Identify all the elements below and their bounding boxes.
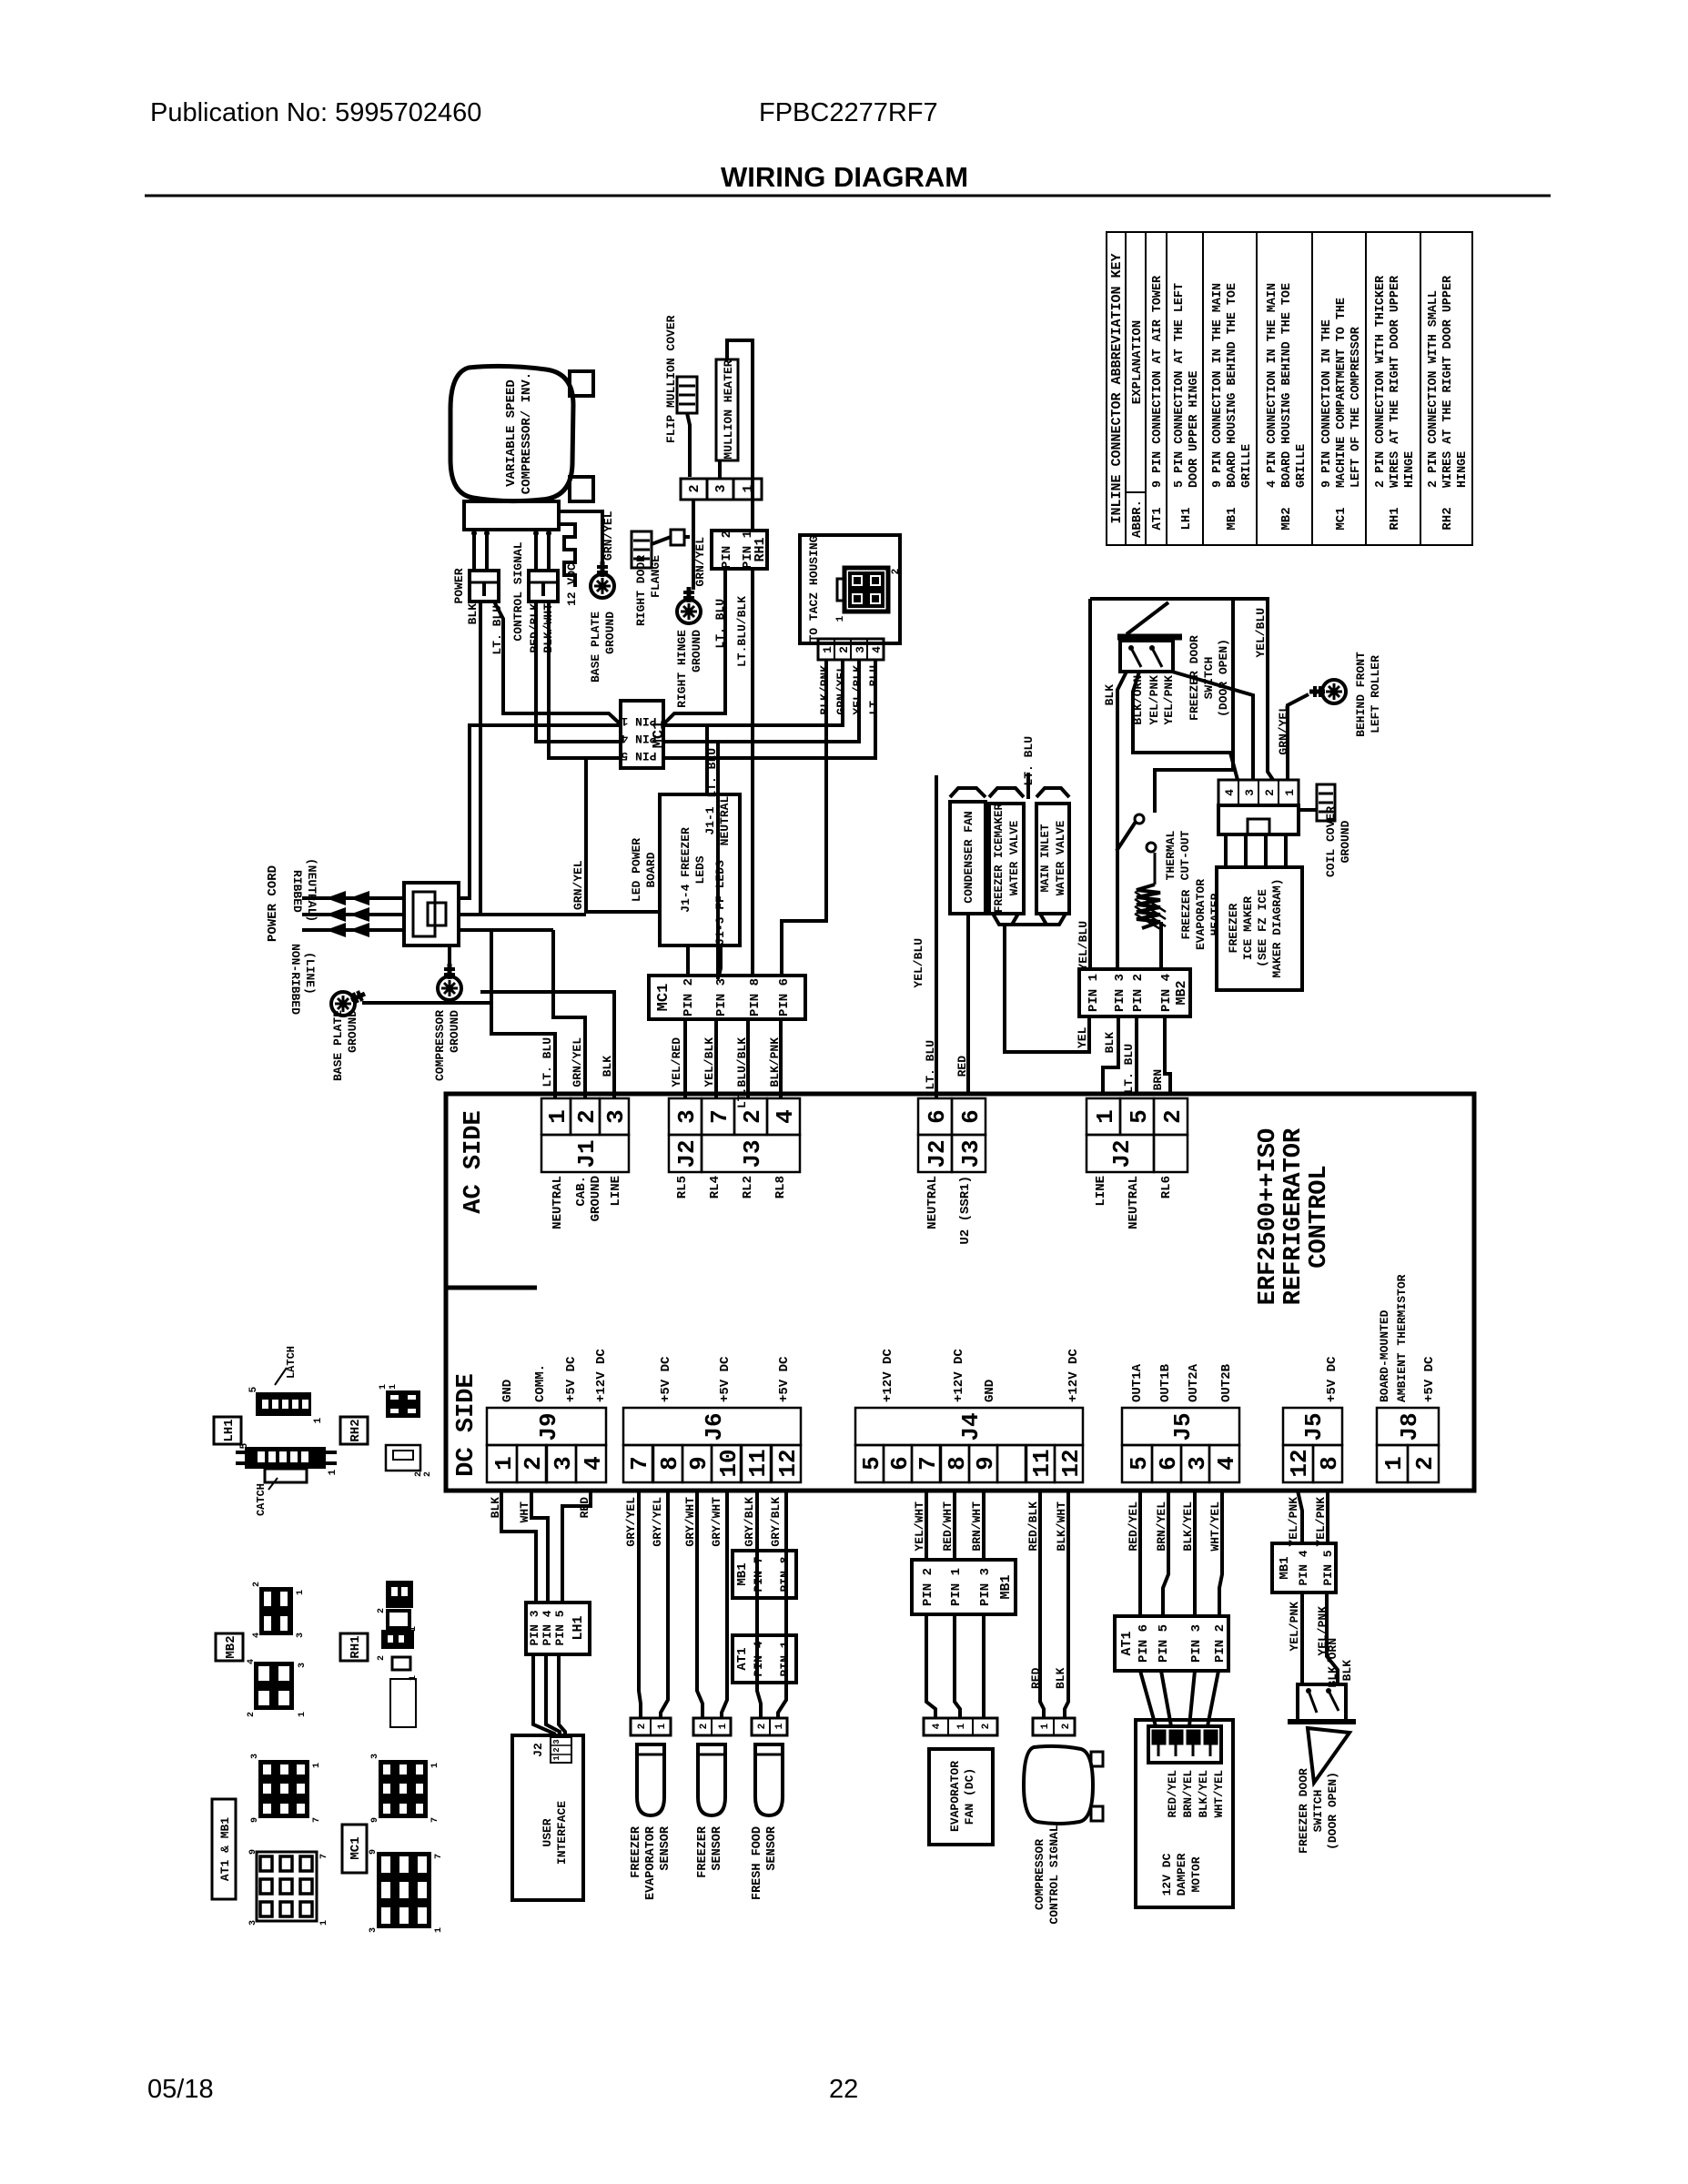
svg-text:BASE PLATE: BASE PLATE	[589, 612, 602, 682]
svg-text:6: 6	[924, 1109, 951, 1124]
svg-text:GRN/YEL: GRN/YEL	[571, 860, 585, 910]
wires LH1 to user interface J2	[533, 1654, 554, 1737]
svg-text:7: 7	[626, 1456, 653, 1471]
svg-text:GRN/YEL: GRN/YEL	[601, 511, 615, 561]
svg-text:J6: J6	[701, 1412, 728, 1441]
svg-text:RH2: RH2	[349, 1419, 363, 1441]
svg-text:RH1: RH1	[1388, 507, 1402, 530]
svg-text:PIN 2: PIN 2	[720, 531, 734, 569]
wire control signal BLK/WHT down	[549, 602, 621, 758]
svg-text:(SEE FZ ICE: (SEE FZ ICE	[1256, 889, 1269, 967]
svg-text:YEL/BLU: YEL/BLU	[912, 938, 925, 988]
svg-text:COMM.: COMM.	[533, 1364, 548, 1402]
power cord connector box	[404, 883, 459, 945]
ice maker connector cells 4321	[1218, 780, 1299, 805]
svg-text:12: 12	[1286, 1449, 1313, 1477]
LED POWER BOARD box	[660, 794, 740, 945]
wires AT1 to damper connector	[1140, 1671, 1156, 1726]
svg-text:GND: GND	[500, 1380, 515, 1402]
svg-text:YEL/BLK: YEL/BLK	[851, 665, 864, 715]
svg-text:WIRES AT THE RIGHT DOOR UPPER: WIRES AT THE RIGHT DOOR UPPER	[1389, 275, 1402, 488]
svg-text:2: 2	[981, 1724, 992, 1730]
flip mullion cover heater icon	[677, 377, 697, 413]
svg-text:PIN 2: PIN 2	[921, 1568, 935, 1606]
wire mullion heater top loop	[727, 340, 753, 531]
svg-text:PIN 1: PIN 1	[949, 1568, 964, 1606]
svg-text:PIN 6: PIN 6	[1137, 1624, 1151, 1663]
wires MC1-2 down to J2/J3	[683, 1019, 687, 1097]
svg-text:BLK/YEL: BLK/YEL	[1198, 1770, 1210, 1818]
svg-text:(NEUTRAL): (NEUTRAL)	[305, 858, 318, 922]
svg-text:3: 3	[550, 1456, 577, 1471]
MB2 label box	[216, 1633, 243, 1661]
freezer door switch icon (bottom)	[1298, 1684, 1346, 1722]
ERF2500 refrigerator control board outline	[446, 1094, 1474, 1491]
svg-text:YEL/BLU: YEL/BLU	[1254, 608, 1268, 658]
svg-text:8: 8	[1316, 1456, 1343, 1471]
svg-text:1: 1	[657, 1723, 668, 1729]
svg-text:YEL/BLK: YEL/BLK	[702, 1037, 716, 1087]
wire BLK from POWER down to power cord	[459, 602, 480, 915]
svg-text:1: 1	[434, 1927, 444, 1933]
freezer sensor connector	[693, 1718, 731, 1735]
wire RH1 pin2 down to MC1 right	[663, 569, 725, 724]
switch wire YEL/PNK to cell3	[1172, 672, 1253, 780]
svg-text:HINGE: HINGE	[1456, 451, 1470, 488]
svg-text:J2: J2	[531, 1743, 545, 1757]
svg-text:J8: J8	[1396, 1412, 1423, 1441]
TACZ wires down-left	[782, 660, 826, 976]
MC1 inline connector above J2/J3	[649, 976, 805, 1019]
svg-text:CAB.: CAB.	[574, 1176, 589, 1207]
svg-text:AT1 & MB1: AT1 & MB1	[218, 1817, 232, 1881]
wire MC1 pin5 to LED power board	[586, 758, 660, 912]
svg-text:9 PIN CONNECTION IN THE MAIN: 9 PIN CONNECTION IN THE MAIN	[1211, 283, 1225, 488]
12 VDC square wave symbol	[561, 524, 575, 587]
svg-text:BASE PLATE: BASE PLATE	[331, 1010, 345, 1081]
svg-text:+5V DC: +5V DC	[1325, 1356, 1339, 1402]
svg-text:GRY/BLK: GRY/BLK	[769, 1497, 783, 1547]
svg-text:GRN/YEL: GRN/YEL	[693, 537, 707, 587]
svg-text:05/18: 05/18	[147, 2075, 214, 2104]
wires MB1 to evap fan connector	[926, 1614, 935, 1718]
svg-text:1: 1	[319, 1920, 329, 1926]
svg-text:RED/YEL: RED/YEL	[1167, 1770, 1179, 1818]
svg-text:LED POWER: LED POWER	[630, 838, 643, 902]
svg-text:3: 3	[370, 1754, 380, 1759]
svg-text:GRN/YEL: GRN/YEL	[571, 1037, 584, 1087]
svg-text:3: 3	[250, 1754, 260, 1759]
svg-text:AMBIENT THERMISTOR: AMBIENT THERMISTOR	[1395, 1274, 1409, 1402]
svg-text:4: 4	[772, 1109, 799, 1124]
svg-text:YEL/BLU: YEL/BLU	[1076, 921, 1090, 971]
svg-text:COMPRESSOR/ INV.: COMPRESSOR/ INV.	[520, 372, 534, 494]
wire MC1 pin4 right to MC1-2 pin3	[663, 742, 718, 979]
svg-text:1: 1	[821, 646, 834, 653]
svg-text:BLK/ORN: BLK/ORN	[1131, 675, 1145, 725]
RH2 connector icons	[386, 1390, 420, 1418]
MC1 label box	[342, 1825, 367, 1873]
svg-text:HINGE: HINGE	[1403, 451, 1417, 488]
svg-text:MB1: MB1	[735, 1562, 750, 1585]
svg-text:1: 1	[490, 1456, 518, 1471]
svg-text:1: 1	[313, 1417, 324, 1423]
svg-text:COIL COVER: COIL COVER	[1324, 806, 1338, 877]
svg-text:8: 8	[944, 1456, 971, 1471]
svg-text:GROUND: GROUND	[690, 630, 703, 672]
svg-text:2: 2	[252, 1582, 262, 1587]
svg-text:+5V DC: +5V DC	[718, 1356, 733, 1402]
svg-text:REFRIGERATOR: REFRIGERATOR	[1280, 1127, 1308, 1305]
svg-text:FRESH FOOD: FRESH FOOD	[751, 1826, 764, 1900]
svg-text:BRN/YEL: BRN/YEL	[1182, 1770, 1195, 1818]
MB1 inline connector (evap fan)	[912, 1560, 1016, 1614]
freezer evaporator sensor bulb	[637, 1744, 664, 1815]
svg-text:J2: J2	[924, 1139, 951, 1168]
svg-text:MB1: MB1	[1225, 507, 1239, 530]
RH1 label box	[340, 1633, 368, 1661]
svg-text:+5V DC: +5V DC	[777, 1356, 792, 1402]
svg-text:GRY/YEL: GRY/YEL	[651, 1497, 664, 1547]
svg-text:PIN 3: PIN 3	[714, 978, 729, 1016]
svg-text:7: 7	[915, 1456, 942, 1471]
connector J2 AC right	[1087, 1098, 1120, 1135]
svg-text:THERMAL: THERMAL	[1164, 830, 1178, 880]
compressor terminal box	[464, 501, 559, 530]
wires J4 to compressor control connector	[1040, 1491, 1044, 1718]
svg-text:BLK/PNK: BLK/PNK	[768, 1037, 782, 1087]
svg-text:YEL/PNK: YEL/PNK	[1147, 675, 1161, 725]
svg-text:11: 11	[744, 1449, 772, 1477]
svg-text:RIBBED: RIBBED	[290, 870, 304, 913]
RH2 label box	[340, 1417, 368, 1444]
svg-text:1: 1	[552, 1755, 561, 1761]
J9 wires BLK WHT RED	[501, 1491, 536, 1603]
wire RH1 pin1 LT.BLU/BLK long trunk to J3	[751, 569, 754, 976]
svg-text:3: 3	[854, 646, 867, 653]
svg-text:BLK/ORN: BLK/ORN	[1326, 1638, 1339, 1688]
svg-text:SENSOR: SENSOR	[711, 1825, 724, 1871]
svg-text:BLK: BLK	[489, 1497, 502, 1519]
svg-text:2: 2	[552, 1747, 561, 1752]
svg-text:MOTOR: MOTOR	[1189, 1856, 1203, 1892]
CATCH connector icon	[245, 1447, 326, 1469]
svg-text:EXPLANATION: EXPLANATION	[1130, 320, 1145, 404]
svg-text:FPBC2277RF7: FPBC2277RF7	[759, 98, 938, 127]
coil cover ground icon	[1317, 784, 1335, 821]
svg-text:1: 1	[389, 1384, 399, 1390]
svg-text:J1-1: J1-1	[703, 806, 717, 834]
small crimp on flange wire	[671, 530, 684, 545]
MC1 connector icons	[379, 1760, 428, 1818]
wires J4 to MB1 fan connector	[925, 1491, 928, 1560]
svg-text:BOARD HOUSING BEHIND THE TOE: BOARD HOUSING BEHIND THE TOE	[1280, 283, 1294, 488]
svg-text:GRILLE: GRILLE	[1295, 444, 1309, 488]
YEL/BLU top loop	[1090, 599, 1273, 780]
svg-text:1: 1	[1283, 789, 1297, 796]
svg-text:WHT: WHT	[518, 1501, 531, 1523]
switch wire BLK to MB2 pin3	[1117, 672, 1127, 969]
svg-text:BLK: BLK	[1054, 1667, 1067, 1689]
svg-text:3: 3	[369, 1927, 379, 1933]
base plate ground lug near compressor	[591, 574, 614, 598]
svg-text:2: 2	[377, 1655, 387, 1661]
wires MB1 to door switch	[1300, 1592, 1304, 1684]
svg-text:6: 6	[957, 1109, 985, 1124]
svg-text:3: 3	[248, 1920, 258, 1926]
svg-text:1: 1	[1380, 1456, 1408, 1471]
svg-text:4: 4	[1213, 1456, 1240, 1471]
svg-text:LH1: LH1	[1179, 507, 1194, 530]
svg-text:1: 1	[774, 1723, 785, 1729]
svg-text:EVAPORATOR: EVAPORATOR	[644, 1825, 658, 1900]
svg-text:PIN 5: PIN 5	[621, 749, 656, 763]
svg-text:FREEZER: FREEZER	[1179, 889, 1193, 939]
svg-text:J5: J5	[1300, 1412, 1328, 1441]
svg-text:LH1: LH1	[222, 1419, 237, 1441]
svg-text:GRY/WHT: GRY/WHT	[710, 1497, 723, 1547]
svg-text:1: 1	[328, 1469, 339, 1475]
svg-text:FREEZER DOOR: FREEZER DOOR	[1297, 1768, 1310, 1854]
wires J5b to MB1	[1298, 1491, 1302, 1543]
USER INTERFACE box	[512, 1735, 583, 1900]
svg-text:PIN 1: PIN 1	[778, 1641, 792, 1676]
svg-text:12: 12	[774, 1449, 802, 1477]
TACZ pin strip 1 2 3 4	[818, 639, 884, 660]
svg-text:BEHIND FRONT: BEHIND FRONT	[1354, 652, 1368, 737]
freezer door switch (top)	[1117, 634, 1182, 641]
svg-text:CONTROL: CONTROL	[1306, 1165, 1333, 1268]
svg-text:POWER: POWER	[452, 568, 466, 603]
compressor control connector 1/2	[1033, 1718, 1075, 1735]
svg-text:GRN/YEL: GRN/YEL	[1277, 705, 1290, 755]
svg-text:4: 4	[870, 646, 884, 653]
svg-text:AC SIDE: AC SIDE	[460, 1110, 488, 1213]
FREEZER ICE MAKER box	[1217, 867, 1302, 990]
MB1 inline connector on fresh food sensor wires	[733, 1551, 796, 1598]
svg-text:7: 7	[434, 1854, 444, 1859]
svg-text:NON-RIBBED: NON-RIBBED	[288, 944, 302, 1015]
svg-text:SENSOR: SENSOR	[765, 1825, 779, 1871]
wire condenser fan to J3 pin6 RED	[966, 914, 970, 1094]
svg-text:11: 11	[1028, 1449, 1056, 1477]
svg-text:CONDENSER FAN: CONDENSER FAN	[962, 811, 975, 903]
svg-text:+12V DC: +12V DC	[594, 1349, 609, 1402]
svg-text:4: 4	[580, 1456, 607, 1471]
mullion connector strip 2/3/1	[681, 479, 762, 500]
svg-text:12 VDC: 12 VDC	[565, 563, 579, 606]
svg-text:12: 12	[1057, 1449, 1085, 1477]
POWER inline connector	[470, 571, 499, 602]
svg-text:FREEZER: FREEZER	[1227, 903, 1240, 953]
svg-text:BLK: BLK	[601, 1056, 614, 1077]
svg-text:1: 1	[1040, 1723, 1051, 1729]
svg-text:CUT-OUT: CUT-OUT	[1178, 830, 1192, 880]
inline connector abbreviation key table	[1107, 232, 1472, 545]
wire GRN/YEL power cord to 644 junction	[459, 913, 586, 916]
svg-text:LT. BLU: LT. BLU	[541, 1037, 554, 1087]
svg-text:RED/BLK: RED/BLK	[1026, 1501, 1040, 1552]
connector J1 AC	[541, 1098, 571, 1135]
svg-text:BRN/YEL: BRN/YEL	[1155, 1501, 1168, 1552]
connector J8 DC	[1377, 1408, 1439, 1445]
svg-text:NEUTRAL: NEUTRAL	[1127, 1176, 1141, 1229]
svg-text:MC1: MC1	[349, 1836, 363, 1859]
svg-text:+5V DC: +5V DC	[564, 1356, 579, 1402]
freezer evaporator sensor wires	[639, 1491, 641, 1718]
svg-text:RED: RED	[955, 1056, 969, 1077]
MB2 pin2 to J2 pin5 LT.BLU	[1135, 1016, 1138, 1094]
svg-text:2: 2	[423, 1471, 433, 1477]
AT1/MB1 connector icons	[258, 1760, 309, 1818]
thermal cutout link to top loop	[1155, 599, 1233, 813]
svg-text:GRY/WHT: GRY/WHT	[683, 1497, 697, 1547]
svg-text:WHT/YEL: WHT/YEL	[1208, 1501, 1222, 1552]
svg-text:ICE MAKER: ICE MAKER	[1241, 896, 1255, 960]
svg-text:PIN 2: PIN 2	[682, 978, 696, 1016]
svg-text:6: 6	[1155, 1456, 1182, 1471]
variable speed compressor/inv blob	[450, 366, 573, 500]
svg-text:MAKER DIAGRAM): MAKER DIAGRAM)	[1270, 878, 1284, 977]
svg-text:1: 1	[296, 1590, 306, 1595]
svg-text:PIN 3: PIN 3	[1189, 1624, 1204, 1663]
svg-text:+12V DC: +12V DC	[952, 1349, 966, 1402]
connector J5 DC small (12/8)	[1283, 1408, 1342, 1445]
svg-text:J2: J2	[673, 1139, 701, 1168]
fresh food sensor wires	[757, 1491, 761, 1718]
svg-text:U2 (SSR1): U2 (SSR1)	[958, 1176, 973, 1245]
svg-text:1: 1	[718, 1723, 729, 1729]
wire valves to MB2 pin1 bottom	[1005, 925, 1089, 1052]
svg-text:CATCH: CATCH	[255, 1483, 268, 1516]
svg-text:BLK/WHT: BLK/WHT	[1055, 1501, 1068, 1552]
wire stub3 to base plate lug and J1	[459, 928, 553, 932]
svg-text:LT. BLU: LT. BLU	[713, 599, 727, 649]
svg-text:NEUTRAL: NEUTRAL	[551, 1176, 565, 1229]
right door flange heater icon	[632, 531, 652, 568]
svg-text:NEUTRAL: NEUTRAL	[925, 1176, 940, 1229]
svg-text:PIN 4: PIN 4	[1297, 1550, 1310, 1585]
EVAPORATOR FAN (DC) box	[929, 1749, 993, 1845]
svg-text:7: 7	[319, 1854, 329, 1859]
svg-text:PIN 4: PIN 4	[541, 1610, 554, 1645]
svg-text:WIRING DIAGRAM: WIRING DIAGRAM	[721, 161, 968, 193]
svg-text:7: 7	[706, 1109, 733, 1124]
LH1 label box	[214, 1417, 241, 1444]
svg-text:BRN/WHT: BRN/WHT	[970, 1501, 984, 1552]
svg-text:BRN: BRN	[1151, 1069, 1165, 1090]
svg-text:6: 6	[886, 1456, 914, 1471]
svg-text:MULLION HEATER: MULLION HEATER	[722, 359, 735, 459]
svg-text:RH1: RH1	[349, 1635, 363, 1658]
evap fan connector 4/1/2	[924, 1718, 997, 1735]
svg-text:COMPRESSOR: COMPRESSOR	[1033, 1839, 1046, 1910]
connector J2/J3 AC pair	[918, 1098, 952, 1135]
svg-text:GRILLE: GRILLE	[1240, 444, 1254, 488]
svg-text:J3: J3	[957, 1139, 985, 1168]
svg-text:CONTROL SIGNAL: CONTROL SIGNAL	[511, 541, 525, 641]
AT1 inline connector on fresh food sensor wires	[733, 1635, 796, 1683]
svg-text:2: 2	[1411, 1456, 1439, 1471]
svg-text:9: 9	[370, 1817, 380, 1823]
svg-text:RED: RED	[1029, 1667, 1043, 1689]
svg-text:2: 2	[247, 1712, 257, 1717]
svg-text:3: 3	[713, 484, 729, 492]
TACZ 4-pin connector icon	[844, 568, 888, 612]
svg-text:PIN 3: PIN 3	[1113, 974, 1127, 1012]
wire power cord stub up to MC1	[459, 725, 621, 898]
svg-text:9: 9	[250, 1817, 260, 1823]
TO TACZ HOUSING box	[800, 535, 900, 643]
svg-text:WIRES AT THE RIGHT DOOR UPPER: WIRES AT THE RIGHT DOOR UPPER	[1441, 275, 1455, 488]
svg-text:2: 2	[739, 1109, 766, 1124]
svg-text:1: 1	[544, 1109, 571, 1124]
svg-text:PIN 3: PIN 3	[978, 1568, 993, 1606]
title rule	[145, 195, 1551, 197]
svg-text:PIN 2: PIN 2	[1213, 1624, 1228, 1663]
svg-text:SWITCH: SWITCH	[1202, 657, 1216, 700]
svg-text:PIN 8: PIN 8	[748, 978, 763, 1016]
svg-text:LEDS: LEDS	[693, 855, 707, 884]
svg-text:RL2: RL2	[741, 1176, 755, 1198]
svg-text:LH1: LH1	[571, 1615, 586, 1640]
svg-text:SENSOR: SENSOR	[659, 1825, 672, 1871]
compressor ground lug	[438, 976, 461, 1000]
svg-text:EVAPORATOR: EVAPORATOR	[948, 1761, 962, 1832]
svg-text:FREEZER: FREEZER	[696, 1825, 710, 1878]
svg-text:EVAPORATOR: EVAPORATOR	[1194, 879, 1208, 950]
svg-text:CONTROL SIGNAL: CONTROL SIGNAL	[1047, 1825, 1061, 1924]
svg-text:DC SIDE: DC SIDE	[453, 1373, 480, 1476]
svg-text:FREEZER: FREEZER	[630, 1825, 643, 1878]
base plate ground lug 2	[331, 992, 355, 1016]
svg-text:AT1: AT1	[1150, 507, 1165, 530]
svg-text:2: 2	[573, 1109, 601, 1124]
svg-text:DOOR UPPER HINGE: DOOR UPPER HINGE	[1188, 370, 1201, 488]
damper connector comb	[1148, 1726, 1221, 1763]
svg-text:10: 10	[715, 1449, 743, 1477]
svg-text:1: 1	[956, 1723, 967, 1729]
svg-text:9 PIN CONNECTION IN THE: 9 PIN CONNECTION IN THE	[1320, 319, 1334, 488]
svg-text:DAMPER: DAMPER	[1175, 1853, 1188, 1896]
LATCH connector icon	[256, 1392, 311, 1416]
svg-text:RED: RED	[578, 1497, 591, 1519]
fresh food sensor connector	[752, 1718, 787, 1735]
svg-text:2: 2	[891, 569, 902, 575]
power cord arrows	[302, 896, 404, 900]
wire LED board to MC1-2 pin2	[686, 945, 690, 976]
svg-text:GROUND: GROUND	[346, 1010, 359, 1053]
svg-text:YEL/PNK: YEL/PNK	[1314, 1497, 1328, 1547]
svg-text:4: 4	[1223, 789, 1237, 796]
svg-text:(DOOR OPEN): (DOOR OPEN)	[1326, 1772, 1339, 1850]
svg-text:MB2: MB2	[224, 1635, 238, 1658]
main inlet valve top feed	[1026, 773, 1030, 799]
svg-text:RH1: RH1	[753, 537, 768, 561]
svg-text:LT. BLU: LT. BLU	[1122, 1044, 1136, 1094]
svg-text:ABBR.: ABBR.	[1130, 500, 1145, 538]
svg-text:BLK/YEL: BLK/YEL	[1181, 1501, 1195, 1552]
svg-text:GRN/YEL: GRN/YEL	[834, 665, 848, 715]
svg-text:2: 2	[1061, 1724, 1072, 1730]
svg-text:J1-4 FREEZER: J1-4 FREEZER	[679, 827, 692, 913]
svg-text:LT. BLU: LT. BLU	[867, 665, 881, 715]
svg-text:BLK: BLK	[1103, 1032, 1117, 1054]
connector J9 DC	[487, 1408, 606, 1445]
svg-text:1: 1	[298, 1712, 308, 1717]
svg-text:RIGHT DOOR: RIGHT DOOR	[634, 555, 648, 626]
svg-text:BLK: BLK	[1103, 684, 1117, 706]
